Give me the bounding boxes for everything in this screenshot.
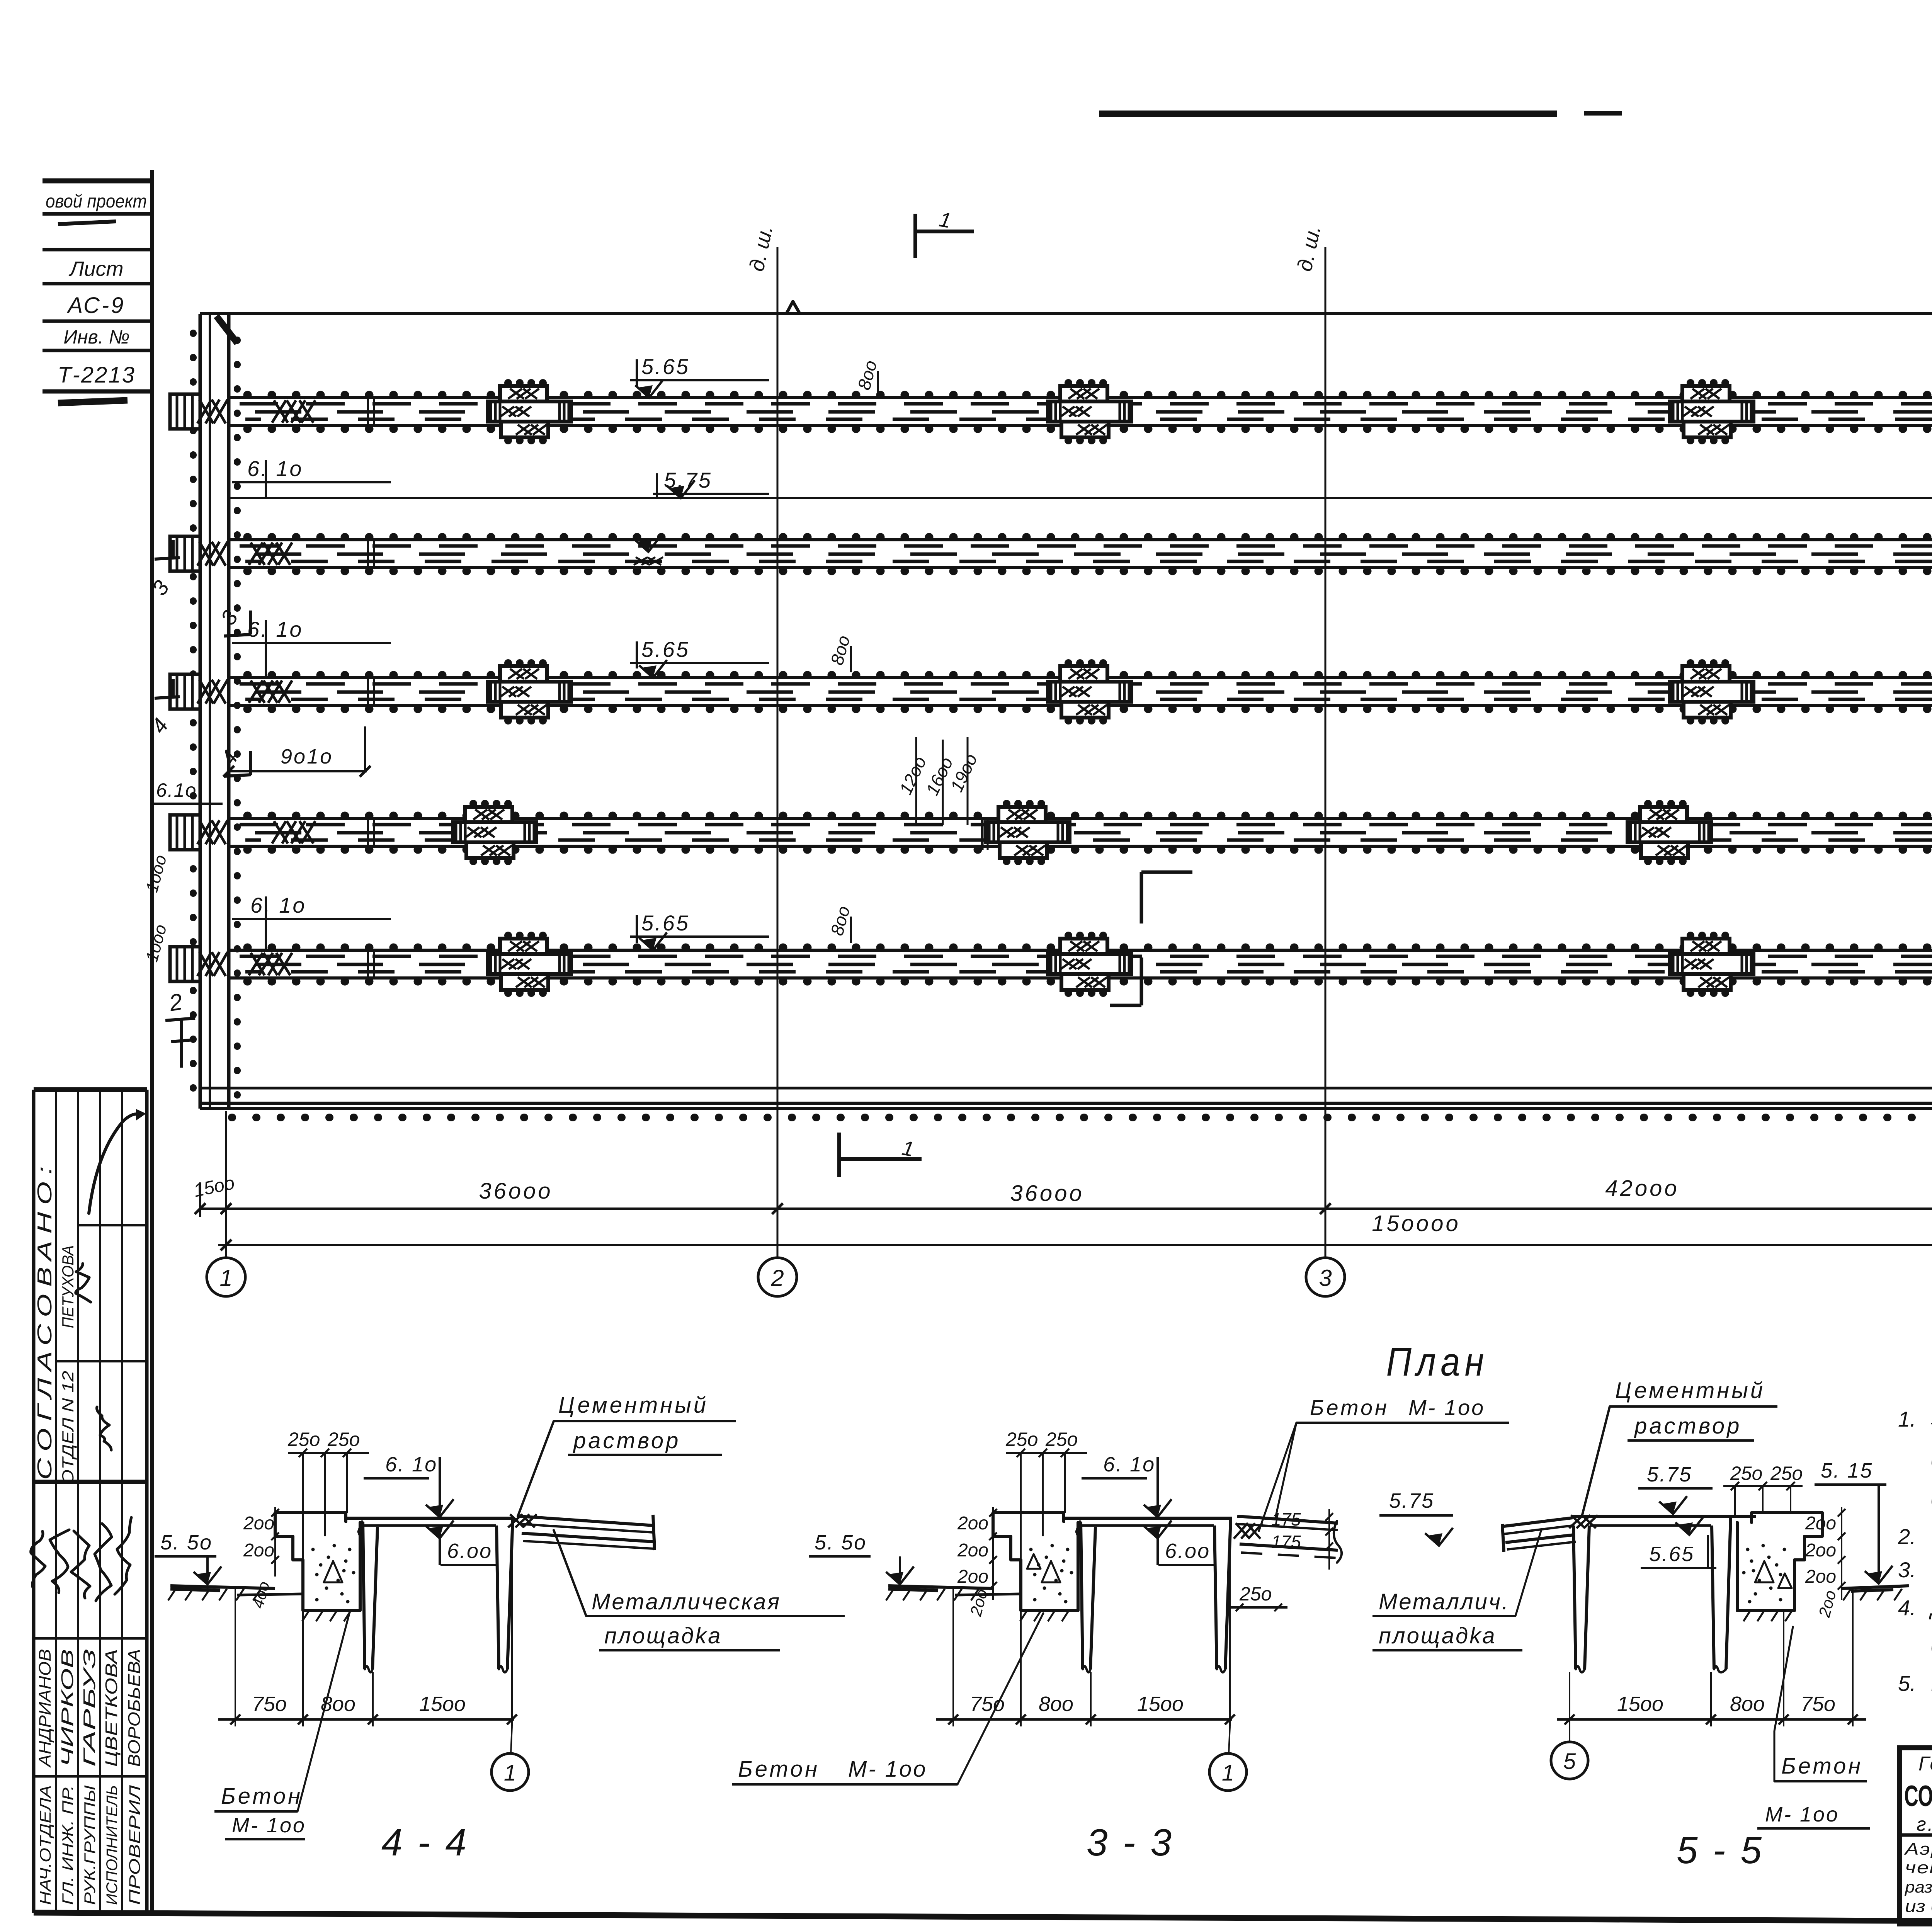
svg-text:6.оо: 6.оо — [447, 1539, 492, 1563]
svg-text:25о: 25о — [327, 1429, 360, 1450]
svg-text:175: 175 — [1271, 1532, 1301, 1552]
svg-text:Госстрой: Госстрой — [1918, 1753, 1932, 1775]
channel band Г connector block x=1370 — [488, 682, 571, 702]
channel band В wall hatch — [197, 820, 211, 844]
svg-text:Бетон: Бетон — [738, 1757, 820, 1782]
channel band Г dashes — [240, 682, 1932, 686]
section 4-4 deck slab — [346, 1517, 514, 1520]
svg-text:М- 1оо: М- 1оо — [232, 1814, 306, 1837]
svg-text:6. 1о: 6. 1о — [247, 456, 303, 481]
column line 3 — [1325, 247, 1327, 1258]
section 5-5 right wall — [1712, 1526, 1714, 1669]
sheet top black bar — [1099, 111, 1557, 117]
section 5-5 column circle 5 — [1569, 1726, 1570, 1742]
svg-text:2.: 2. — [1898, 1524, 1916, 1549]
svg-text:Инв. №: Инв. № — [63, 326, 129, 348]
svg-text:5.75: 5.75 — [1389, 1489, 1434, 1512]
svg-text:2оо: 2оо — [957, 1540, 988, 1561]
section 4-4 bottom dims — [218, 1718, 514, 1721]
svg-text:5.65: 5.65 — [641, 911, 690, 935]
channel band Г wall hatch — [197, 680, 211, 704]
svg-text:6. 1о: 6. 1о — [385, 1453, 437, 1476]
section 5-5 deck slab — [1573, 1515, 1756, 1518]
svg-text:15оо: 15оо — [1617, 1692, 1663, 1716]
svg-text:Цементный: Цементный — [558, 1393, 708, 1418]
svg-text:25о: 25о — [287, 1429, 320, 1450]
svg-text:АС-9: АС-9 — [67, 293, 126, 318]
svg-text:5. 5о: 5. 5о — [815, 1531, 867, 1554]
svg-text:ГАРБУЗ: ГАРБУЗ — [80, 1649, 99, 1767]
channel band А panel ticks — [367, 540, 369, 568]
section 3-3 left wall — [1081, 1522, 1083, 1669]
svg-text:6. 1о: 6. 1о — [1103, 1453, 1155, 1476]
stamp smudge — [58, 400, 128, 403]
svg-text:Бетон: Бетон — [1781, 1753, 1863, 1779]
svg-text:8оо: 8оо — [1730, 1692, 1765, 1716]
section mark 3 left — [155, 558, 180, 559]
svg-text:4 - 4: 4 - 4 — [381, 1821, 469, 1864]
svg-text:размерами коридора 9×5,2×15о: размерами коридора 9×5,2×15о — [1904, 1878, 1932, 1896]
svg-text:5.75: 5.75 — [1647, 1463, 1692, 1486]
svg-text:М- 1оо: М- 1оо — [848, 1757, 927, 1782]
channel band Г connector block x=2820 — [1048, 682, 1131, 702]
signature table horizontals — [34, 1087, 147, 1092]
svg-text:Цементный: Цементный — [1615, 1378, 1765, 1403]
svg-text:15оооо: 15оооо — [1372, 1211, 1461, 1236]
channel band Е connector block x=2820 — [1048, 401, 1131, 422]
svg-text:75о: 75о — [1801, 1692, 1835, 1716]
signature squiggles — [76, 1264, 91, 1302]
section 4-4 metal bridge — [519, 1516, 654, 1526]
svg-text:ПЕТУХОВА: ПЕТУХОВА — [59, 1245, 77, 1328]
svg-text:5 - 5: 5 - 5 — [1677, 1829, 1764, 1871]
svg-text:15оо: 15оо — [419, 1692, 466, 1716]
section 4-4 left wall — [363, 1522, 365, 1669]
section 5-5 soil hatch under block — [1743, 1611, 1750, 1621]
svg-text:ЦВЕТКОВА: ЦВЕТКОВА — [102, 1649, 121, 1767]
svg-text:25о: 25о — [1239, 1583, 1272, 1605]
bottom dim line segments — [200, 1207, 1932, 1210]
column circles 1-5 — [207, 1258, 245, 1296]
stamp row lines — [43, 179, 151, 184]
channel band Г panel ticks — [367, 678, 369, 706]
sheet left border — [150, 170, 154, 1913]
svg-text:36ооо: 36ооо — [479, 1179, 553, 1204]
svg-text:четырежкоридорные с: четырежкоридорные с — [1905, 1858, 1932, 1877]
svg-text:6. 1о: 6. 1о — [250, 893, 306, 917]
svg-text:1: 1 — [1222, 1760, 1234, 1786]
svg-text:РУК.ГРУППЫ: РУК.ГРУППЫ — [82, 1785, 99, 1905]
svg-text:36ооо: 36ооо — [1010, 1181, 1084, 1206]
section 3-3 column circle 1 — [1229, 1726, 1230, 1753]
section 4-4 ground line left — [170, 1586, 275, 1588]
channel band Г dots — [247, 671, 1932, 679]
channel band Г lines — [229, 676, 1932, 679]
svg-text:3 - 3: 3 - 3 — [1087, 1821, 1174, 1864]
section 5-5 cement hatch — [1569, 1515, 1583, 1528]
plan left end wall — [199, 314, 202, 1109]
svg-text:ОТДЕЛ N 12: ОТДЕЛ N 12 — [59, 1371, 77, 1485]
svg-text:из сборного железобетона: из сборного железобетона — [1905, 1897, 1932, 1916]
channel band Е left end block — [170, 394, 200, 429]
svg-text:5: 5 — [1563, 1749, 1576, 1774]
svg-text:площадkа: площадkа — [1379, 1623, 1496, 1648]
section mark 4 left — [155, 697, 180, 698]
svg-text:2оо: 2оо — [1805, 1540, 1836, 1561]
section 5-5 foundation block (right) — [1752, 1513, 1822, 1522]
svg-text:5. 5о: 5. 5о — [160, 1531, 213, 1554]
svg-text:ГЛ. ИНЖ. ПР.: ГЛ. ИНЖ. ПР. — [60, 1785, 77, 1905]
section mark 1 top — [913, 214, 917, 258]
svg-text:5.65: 5.65 — [1649, 1543, 1694, 1566]
channel band Б left end block — [170, 947, 200, 981]
svg-text:175: 175 — [1271, 1509, 1301, 1529]
section 5-5 left wall — [1573, 1526, 1576, 1669]
plan top-left ink wedge — [216, 316, 237, 343]
svg-text:АНДРИАНОВ: АНДРИАНОВ — [36, 1649, 54, 1768]
svg-text:ПРОВЕРИЛ: ПРОВЕРИЛ — [126, 1785, 143, 1905]
svg-text:9о1о: 9о1о — [281, 745, 333, 768]
svg-text:75о: 75о — [252, 1692, 287, 1716]
svg-text:НАЧ.ОТДЕЛА: НАЧ.ОТДЕЛА — [37, 1785, 54, 1905]
svg-text:2оо: 2оо — [1805, 1513, 1836, 1534]
band В joint notch — [981, 818, 984, 850]
section 3-3 right wall — [1214, 1526, 1217, 1669]
svg-text:расmвор: расmвор — [573, 1428, 680, 1453]
channel band В connector block x=4320 — [1628, 822, 1711, 842]
channel band В panel ticks — [367, 818, 369, 846]
svg-text:План: План — [1386, 1340, 1489, 1384]
title block left cell divider — [1900, 1833, 1932, 1837]
channel band Б dashes — [240, 955, 1932, 958]
channel band Б dots — [247, 944, 1932, 952]
svg-text:3: 3 — [1319, 1265, 1332, 1291]
svg-text:2: 2 — [770, 1265, 784, 1291]
plan left wall dot columns — [190, 333, 197, 1097]
channel band В connector block x=2660 — [986, 822, 1070, 842]
svg-text:5. 15: 5. 15 — [1821, 1459, 1873, 1482]
section 3-3 bottom dims — [936, 1718, 1232, 1721]
section 5-5 left bridge — [1504, 1518, 1573, 1526]
svg-text:2оо: 2оо — [243, 1540, 274, 1561]
level mark on band А — [634, 534, 662, 552]
svg-text:ИСПОЛНИТЕЛЬ: ИСПОЛНИТЕЛЬ — [104, 1785, 121, 1905]
channel band А wall hatch — [197, 542, 211, 566]
section mark 1 bottom — [837, 1133, 841, 1177]
signature table verticals — [32, 1090, 36, 1913]
svg-text:75о: 75о — [970, 1692, 1005, 1716]
channel band Б connector block x=2820 — [1048, 954, 1131, 974]
svg-text:25о: 25о — [1770, 1463, 1803, 1484]
section 3-3 right bridge short — [1237, 1516, 1338, 1523]
svg-text:25о: 25о — [1730, 1463, 1762, 1484]
svg-text:5.65: 5.65 — [641, 637, 690, 662]
channel band В dots — [247, 812, 1932, 820]
section 4-4 column circle 1 — [511, 1726, 512, 1753]
svg-text:М- 1оо: М- 1оо — [1765, 1803, 1839, 1826]
section 4-4 cement mortar hatch — [508, 1514, 522, 1527]
channel band В dashes — [240, 823, 1932, 827]
svg-text:СОГЛАСОВАНО:: СОГЛАСОВАНО: — [34, 1159, 56, 1480]
channel band Е wall hatch — [197, 400, 211, 423]
channel band Б connector block x=1370 — [488, 954, 571, 974]
svg-text:5.: 5. — [1898, 1671, 1916, 1696]
svg-text:3.: 3. — [1898, 1558, 1916, 1582]
channel band В connector block x=1280 — [453, 822, 536, 842]
channel band Г left end block — [170, 674, 200, 709]
channel band Б lines — [229, 949, 1932, 952]
channel band Е connector block x=4430 — [1670, 401, 1753, 422]
section 5-5 ground line right — [1842, 1586, 1909, 1588]
section 3-3 soil hatch under block — [1020, 1611, 1027, 1621]
dividing wall line between Е and А — [229, 497, 1932, 499]
svg-text:42ооо: 42ооо — [1605, 1176, 1679, 1201]
svg-text:4.: 4. — [1898, 1595, 1916, 1620]
title block outer box — [1900, 1748, 1932, 1924]
channel band Е panel ticks — [367, 398, 369, 425]
svg-text:СОЮЗВОДОКАНАЛПРОЕКТ: СОЮЗВОДОКАНАЛПРОЕКТ — [1904, 1780, 1932, 1813]
svg-text:2оо: 2оо — [1805, 1566, 1836, 1587]
svg-text:г. Мосkва: г. Мосkва — [1917, 1813, 1932, 1835]
svg-text:2оо: 2оо — [243, 1513, 274, 1534]
channel band А lines — [229, 538, 1932, 541]
svg-text:6.1о: 6.1о — [156, 779, 197, 801]
channel band Е lines — [229, 396, 1932, 399]
channel band Е dots — [247, 391, 1932, 399]
column line 2 — [777, 247, 779, 1258]
svg-text:М- 1оо: М- 1оо — [1408, 1395, 1485, 1420]
channel band Е dashes — [240, 402, 1932, 406]
plan top boundary line — [200, 312, 1932, 315]
svg-text:Аэротенки - смесители: Аэротенки - смесители — [1903, 1840, 1932, 1859]
stamp arrow — [89, 1114, 139, 1213]
svg-text:2оо: 2оо — [957, 1566, 988, 1587]
svg-text:Бетон: Бетон — [1310, 1395, 1389, 1420]
svg-text:1: 1 — [219, 1265, 232, 1291]
plan bottom boundary lines — [200, 1087, 1932, 1090]
section 4-4 right wall — [497, 1526, 499, 1669]
svg-text:Металлич.: Металлич. — [1379, 1589, 1510, 1614]
section 4-4 soil hatch under block — [302, 1611, 309, 1621]
channel band А left end block — [170, 536, 200, 571]
svg-text:2оо: 2оо — [957, 1513, 988, 1534]
svg-text:15оо: 15оо — [1137, 1692, 1184, 1716]
svg-text:ЧИРКОВ: ЧИРКОВ — [58, 1649, 77, 1767]
plan bottom dotted row — [232, 1114, 1932, 1121]
section 3-3 foundation block — [993, 1513, 1064, 1522]
channel band А dots — [247, 533, 1932, 541]
column line 1 lower — [225, 1111, 227, 1258]
section cut marks mid — [1141, 871, 1192, 874]
channel band Е connector block x=1370 — [488, 401, 571, 422]
channel band А dashes — [240, 544, 1932, 548]
channel band В left end block — [170, 815, 200, 850]
section 3-3 hatch at right joint — [1234, 1523, 1248, 1539]
svg-text:5.65: 5.65 — [641, 354, 690, 379]
svg-text:6.оо: 6.оо — [1165, 1539, 1210, 1563]
svg-text:6. 1о: 6. 1о — [247, 617, 303, 641]
svg-text:25о: 25о — [1005, 1429, 1038, 1450]
section 3-3 ground line left — [888, 1586, 993, 1588]
svg-text:Лисm: Лисm — [68, 257, 123, 281]
channel band Б wall hatch — [197, 952, 211, 976]
svg-text:1.: 1. — [1898, 1407, 1916, 1431]
svg-text:1: 1 — [504, 1760, 516, 1786]
svg-text:8оо: 8оо — [1039, 1692, 1073, 1716]
dim line 150000 — [218, 1244, 1932, 1246]
section 3-3 deck slab — [1064, 1517, 1232, 1520]
channel band Б panel ticks — [367, 950, 369, 978]
svg-text:овой проекm: овой проекm — [46, 191, 147, 212]
sheet bottom border — [34, 1913, 1932, 1924]
svg-text:площадkа: площадkа — [604, 1623, 722, 1648]
svg-text:ВОРОБЬЕВА: ВОРОБЬЕВА — [125, 1649, 144, 1767]
channel band В lines — [229, 817, 1932, 820]
svg-text:расmвор: расmвор — [1634, 1413, 1742, 1439]
section 4-4 foundation block — [275, 1513, 346, 1522]
channel band Б connector block x=4430 — [1670, 954, 1753, 974]
svg-text:Металлическая: Металлическая — [592, 1589, 781, 1614]
section 5-5 bottom dims — [1557, 1718, 1866, 1721]
channel band Г connector block x=4430 — [1670, 682, 1753, 702]
svg-text:Бетон: Бетон — [221, 1784, 303, 1809]
svg-text:25о: 25о — [1045, 1429, 1078, 1450]
svg-text:Т-2213: Т-2213 — [58, 362, 136, 388]
